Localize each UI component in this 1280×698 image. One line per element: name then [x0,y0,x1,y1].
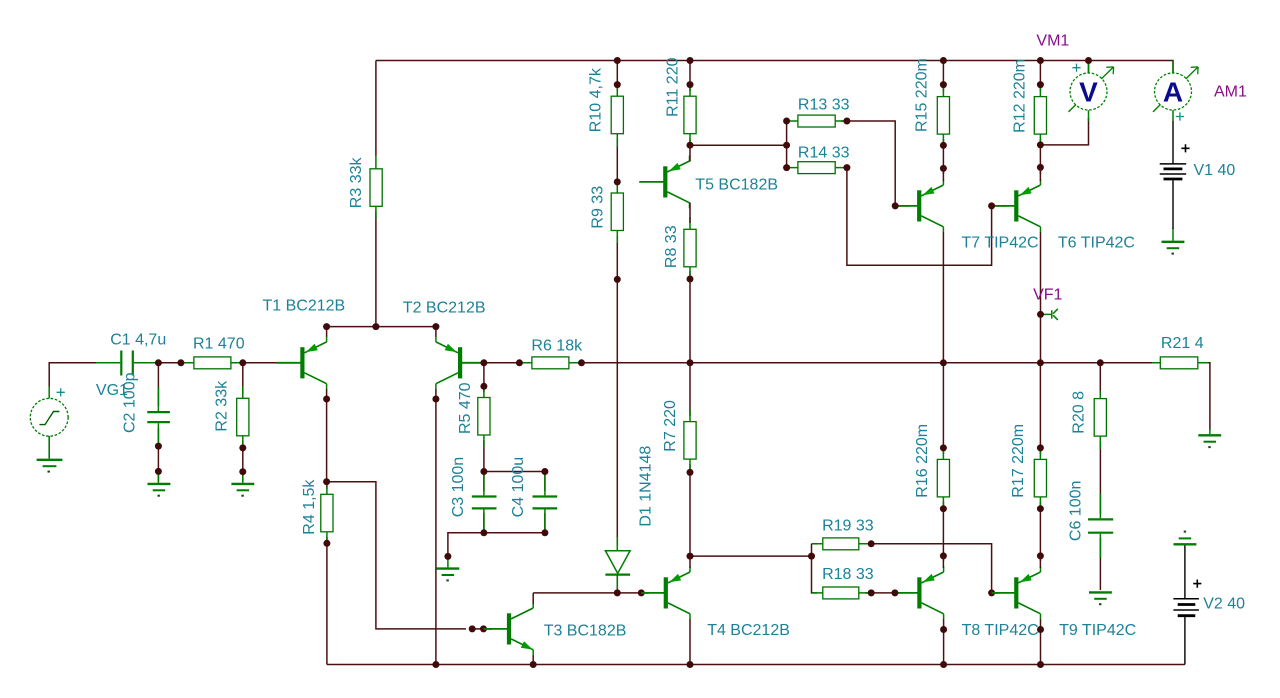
svg-text:VF1: VF1 [1033,287,1062,304]
voltmeter VM1 terminal stubs [1088,61,1090,121]
svg-text:R20 8: R20 8 [1071,391,1088,434]
svg-text:R14 33: R14 33 [798,144,850,161]
node D1 cathode [614,589,621,596]
node R19 R18 left junction [808,553,815,560]
node R1 left [177,359,184,366]
C6 terminal stubs [1099,494,1101,558]
wire feedback junction right and down to T3 base row [327,482,466,629]
svg-text:C4 100u: C4 100u [510,457,527,518]
node R13 left [783,118,790,125]
diode D1 triangle [605,551,630,574]
capacitor C2 plates [147,412,170,422]
svg-text:T4 BC212B: T4 BC212B [707,622,790,639]
battery V2 wire top [1184,546,1186,599]
resistor R5 [478,398,490,436]
node T2 emitter [432,323,439,330]
diode D1 cathode stub [616,576,618,593]
node R13 right [843,118,850,125]
svg-text:T7 TIP42C: T7 TIP42C [962,235,1039,252]
svg-text:R2 33k: R2 33k [213,380,230,432]
wire R16 bottom to T8 emitter [942,502,944,561]
node T9 emitter top [1037,552,1044,559]
wire T3 collector row to D1 node [533,592,617,594]
ammeter AM1 arrow [1186,67,1198,79]
C1 terminal stubs [96,362,158,364]
resistor R2 [237,398,249,436]
wire T7 emitter connect [942,168,944,181]
transistor T3 BC182B [487,603,533,656]
wire T3 base connect [484,628,493,630]
capacitor C1 plates [121,351,133,376]
node T4 base terminal [638,589,645,596]
wire R17 bottom to T9 emitter [1039,502,1041,561]
wire R16 column top [942,363,944,454]
node R18 right [868,589,875,596]
R3 terminals [375,156,377,220]
R1 terminals [181,362,243,364]
battery V2 plus [1193,580,1201,588]
ground C2 stem [157,471,159,483]
R16 terminals [942,448,944,509]
ground R21 [1198,434,1221,436]
probe VF1 symbol [1041,309,1058,320]
R6 terminals [519,362,581,364]
resistor R12 [1034,97,1046,135]
resistor R19 [823,538,859,550]
node T9 base [988,589,995,596]
svg-text:V2 40: V2 40 [1203,595,1245,612]
wire R2 column upper [242,363,244,393]
wire T5 collector node to R13 R14 junction [690,144,787,146]
VG1 plus sign [57,388,65,396]
node T6 base [988,202,995,209]
svg-text:R7 220: R7 220 [662,400,679,452]
battery V1 plates [1160,164,1187,174]
capacitor C4 plates [533,497,558,509]
R10 terminals [616,85,618,147]
node top rail R12 [1037,57,1044,64]
wire C2 column upper [157,363,159,406]
wire T6 base stub [992,205,1007,207]
wire C3 C4 top row [484,471,545,473]
ground R2 [231,483,254,485]
node bottom rail T4 collector [687,661,694,668]
wire T3 base dots to bar [472,628,483,630]
resistor R21 [1160,357,1198,369]
wire T1 collector down to feedback junction [326,389,328,482]
wire R15 bottom dots to T7 emitter [942,139,944,174]
C2 terminal stubs [157,387,159,446]
node T1 emitter [323,323,330,330]
wire T9 emitter connect [1039,556,1041,568]
node R13 R14 mid junction [783,142,790,149]
wire top positive rail [376,61,1173,74]
svg-text:D1 1N4148: D1 1N4148 [638,446,655,527]
wire T2 base to R5 junction [465,362,519,364]
svg-text:R1 470: R1 470 [193,336,245,353]
wire R9 bottom to D1 anode [616,236,618,545]
node R2 lower b [239,468,246,475]
R21 terminals [1152,362,1208,364]
wire R20 bottom to C6 [1099,441,1101,514]
node T8 base [891,589,898,596]
VG1 top terminal stub [48,387,50,399]
wire R21 right corner down to ground [1203,363,1210,430]
node T5 base R9 R10 [614,178,621,185]
R2 terminals [242,386,244,448]
node R6 left [516,359,523,366]
node C3 bottom [480,529,487,536]
wire R10 bottom to T5 base junction [616,139,618,187]
wire R15 top stub from rail [942,61,944,92]
wire centre node down to R7 [689,363,691,416]
node C4 bottom [541,529,548,536]
R20 terminals [1099,391,1101,449]
node R14 left [783,164,790,171]
battery V1 wire bottom [1172,180,1174,229]
svg-text:AM1: AM1 [1214,83,1247,100]
capacitor C3 plates [472,497,497,509]
VG1 waveform symbol [39,412,59,425]
wire output node to R21 [1100,362,1155,364]
ammeter AM1 circle [1155,73,1192,110]
node R11 top terminal [687,81,694,88]
svg-text:C2 100p: C2 100p [122,372,139,433]
svg-text:R6 18k: R6 18k [531,338,583,355]
node centre R8 R7 main [687,359,694,366]
node bottom rail T2 collector [432,661,439,668]
transistor T6 TIP42C [994,180,1040,233]
node R4 bottom [323,540,330,547]
wire T9 base connect [991,587,993,593]
wire D1 node to T4 base [617,592,641,594]
node R10 top terminal [614,81,621,88]
ammeter AM1 terminal stubs [1172,61,1174,121]
R12 terminals [1039,85,1041,145]
wire T3 emitter to bottom rail [532,655,534,665]
resistor R13 [798,115,835,127]
wire R13 right to T7 base [841,121,895,206]
battery V2 plates [1173,599,1199,610]
svg-text:T1 BC212B: T1 BC212B [263,297,346,314]
node T3 base a [469,625,476,632]
R14 terminals [787,167,847,169]
svg-text:R11 220: R11 220 [665,57,682,116]
wire T7 collector to output line [942,232,944,363]
svg-text:T2 BC212B: T2 BC212B [403,299,486,316]
wire R11 bottom to T5 emitter diag [689,145,691,161]
ground VG1 [37,459,63,461]
wire input VG1 to C1 [49,363,116,387]
svg-text:C6 100n: C6 100n [1067,481,1084,542]
wire C3 top stub [483,472,485,492]
svg-text:T6 TIP42C: T6 TIP42C [1058,235,1135,252]
svg-text:T3 BC182B: T3 BC182B [544,622,627,639]
voltmeter VM1 tail [1069,105,1076,112]
svg-text:C1 4,7u: C1 4,7u [110,332,166,349]
R11 terminals [689,85,691,145]
transistor T8 TIP42C [897,567,943,620]
wire R12 bottom dots to T6 emitter [1039,139,1041,174]
wire bottom rail [327,664,1185,666]
transistor T9 TIP42C [994,567,1040,620]
wire C4 bottom stub [544,513,546,533]
R15 terminals [942,85,944,145]
resistor R7 [684,422,696,460]
voltmeter VM1 plus [1072,64,1080,72]
wire emitter node row T1-R3-T2 [327,326,436,328]
battery V1 plus [1181,144,1189,152]
node R19 right [868,540,875,547]
R8 terminals [689,217,691,279]
svg-text:T9 TIP42C: T9 TIP42C [1059,622,1136,639]
node bottom rail T3 emitter [530,661,537,668]
wire C6 bottom to ground [1099,538,1101,590]
R17 terminals [1039,448,1041,509]
wire R2 column lower to ground [242,441,244,481]
C3 terminal stubs [483,472,485,533]
wire T4 base connect [641,592,649,594]
wire T5 collector diag to R8 [689,203,691,224]
node R17 bottom [1037,505,1044,512]
wire R14 right to T6 base [847,168,992,266]
diode D1 cathode bar [605,573,630,575]
node R9 bottom [614,276,621,283]
resistor R1 [194,357,231,369]
generator VG1 circle [30,398,68,436]
node T9 collector terminal [1037,626,1044,633]
wire R12 top stub from rail [1039,61,1041,92]
R19 terminals [812,543,871,545]
voltmeter VM1 circle [1070,73,1107,110]
wire T1 emitter stub [326,327,328,337]
node R3 bottom emitter row [372,323,379,330]
wire R18 right to T8 base [865,592,903,594]
svg-text:R12 220m: R12 220m [1012,59,1029,133]
svg-text:R10 4,7k: R10 4,7k [588,67,605,132]
wire T8 emitter connect [942,556,944,568]
svg-text:R5 470: R5 470 [457,382,474,434]
svg-text:V: V [1079,77,1098,108]
ground C3 C4 [436,567,459,569]
wire R5 bottom to C3 top junction [483,440,485,472]
node R8 bottom [687,276,694,283]
resistor R6 [532,357,569,369]
voltmeter VM1 arrow [1101,67,1113,79]
wire T9 collector to bottom rail [1040,619,1042,665]
R18 terminals [812,592,871,594]
wire R11 bottom to T5 collector node [689,139,691,145]
svg-text:C3 100n: C3 100n [450,457,467,518]
wire R3 column top (rail corner down to R3) [375,61,377,157]
node T8 emitter top [940,552,947,559]
svg-text:R4 1,5k: R4 1,5k [301,479,318,535]
node VF1 [1037,311,1044,318]
node T7 base [892,202,899,209]
svg-text:R17 220m: R17 220m [1010,424,1027,498]
node C2 lower a [155,443,162,450]
wire R19 R18 left split [812,544,818,593]
wire C3 C4 bottom row and drop to ground [448,533,545,557]
svg-text:R13 33: R13 33 [798,97,850,114]
svg-text:A: A [1163,77,1183,108]
node T8 collector terminal [940,626,947,633]
ammeter AM1 plus [1176,112,1184,120]
node C2 lower b [155,468,162,475]
transistor T4 BC212B [644,567,690,620]
svg-text:R16 220m: R16 220m [914,424,931,498]
node R15 top terminal [940,81,947,88]
node bottom rail T9 collector [1037,661,1044,668]
node C3 ground stub [444,553,451,560]
wire T6 collector to VF1 and output line [1040,232,1042,363]
node R16 bottom [940,505,947,512]
wire V meter minus to R12 bottom [1040,118,1088,145]
resistor R8 [684,229,696,266]
svg-text:T5 BC182B: T5 BC182B [695,177,778,194]
wire T6 emitter connect [1039,167,1041,181]
C4 terminal stubs [544,472,546,533]
wire T7 base stub [895,205,910,207]
node R20 top [1097,359,1104,366]
wire R8 bottom to centre node [689,271,691,363]
node top rail R10 [614,57,621,64]
wire R19 right to T9 base [865,544,992,587]
node top rail R15 [940,57,947,64]
node R1 right R2 [239,359,246,366]
svg-text:R18 33: R18 33 [822,566,874,583]
ground V2 inverted [1184,531,1186,533]
resistor R17 [1034,459,1046,497]
node T2 collector terminal [432,396,439,403]
R4 terminals [326,487,328,543]
node T7 collector output [940,359,947,366]
ground R2 stem [242,472,244,483]
node R6 right [578,359,585,366]
node R17 top [1037,444,1044,451]
resistor R3 [370,169,382,207]
node R12 top terminal [1037,81,1044,88]
transistor T5 BC182B [639,156,689,209]
resistor R4 [321,494,333,532]
node bottom rail T8 collector [940,661,947,668]
node R16 top [940,444,947,451]
node T1 collector R4 feedback [323,478,330,485]
transistor T1 BC212B [277,336,327,389]
wire T4 emitter connect [689,556,691,568]
wire R11 top stub from rail [689,61,691,92]
resistor R16 [937,459,949,497]
wire T4 emitter junction right to R18 R19 junction [690,555,812,557]
capacitor C6 plates [1088,519,1113,532]
wire R3 bottom to emitter node [375,211,377,327]
wire R20 column top [1099,363,1101,393]
wire R5 top stub [483,363,485,392]
svg-text:V1 40: V1 40 [1194,162,1236,179]
wire T2 collector long drop to bottom rail [435,389,437,665]
node R7 bottom [687,469,694,476]
svg-text:R9 33: R9 33 [589,186,606,229]
node T6 collector output [1037,359,1044,366]
transistor T2 BC212B [436,336,482,389]
ground V1 [1162,241,1185,243]
node R5 C3 top [480,468,487,475]
wire R7 bottom to T4 emitter junction [689,464,691,556]
wire T8 collector to bottom rail [943,619,945,665]
wire D1 cathode stub [616,575,618,593]
node C4 top [541,468,548,475]
R7 terminals [689,410,691,473]
node R15 bottom [940,142,947,149]
ground C6 [1089,591,1112,593]
node T2 base R5 [480,359,487,366]
VG1 bottom terminal stub [48,436,50,458]
resistor R18 [823,587,859,599]
transistor T7 TIP42C [897,180,943,233]
ground C2 [148,483,171,485]
node C1 C2 input [155,359,162,366]
wire R4 column top [326,482,328,489]
svg-text:R8 33: R8 33 [663,225,680,268]
wire C3 bottom stub [483,513,485,533]
R5 terminals [483,386,485,447]
svg-text:R19 33: R19 33 [822,518,874,535]
svg-text:R15 220m: R15 220m [914,58,931,132]
resistor R15 [937,97,949,135]
wire centre node to output node [690,362,1100,364]
wire T3 collector connect [532,593,534,604]
R13 terminals [787,120,847,122]
node T1 collector terminal [323,396,330,403]
node R5 top terminal [480,383,487,390]
node T7 emitter top [940,165,947,172]
node top rail VM1 [1085,57,1092,64]
node R11 bottom T5 collector [687,142,694,149]
resistor R10 [611,96,623,134]
battery V2 wire bottom to rail [1184,617,1186,665]
node top rail R11 [687,57,694,64]
svg-text:R21 4: R21 4 [1161,335,1204,352]
node T6 emitter top [1037,164,1044,171]
node R12 bottom [1037,141,1044,148]
wire R10 top stub from rail [616,61,618,92]
svg-text:T8 TIP42C: T8 TIP42C [962,622,1039,639]
ammeter AM1 tail [1153,105,1160,112]
node R2 lower a [239,444,246,451]
resistor R20 [1094,399,1106,437]
svg-text:VM1: VM1 [1036,33,1069,50]
node T4 emitter junction [687,553,694,560]
node R14 right [843,164,850,171]
battery V1 wire top [1172,121,1174,164]
svg-text:R3 33k: R3 33k [348,157,365,209]
wire R6 right to centre node [574,362,690,364]
wire C1 right to R1 left [138,362,188,364]
R9 terminals [616,182,618,243]
wire R19 left stub [812,543,818,545]
resistor R11 [684,96,696,134]
wire R4 bottom to bottom rail [326,537,328,665]
resistor R9 [611,193,623,231]
diode D1 anode stub [616,537,618,551]
wire T4 collector to bottom rail [689,619,691,665]
wire R13 R14 left vertical [786,121,788,168]
wire R17 column top [1039,363,1041,454]
wire C4 top stub [544,472,546,492]
node T3 base b [480,625,487,632]
wire C2 column lower to ground [157,428,159,481]
resistor R14 [798,162,835,174]
